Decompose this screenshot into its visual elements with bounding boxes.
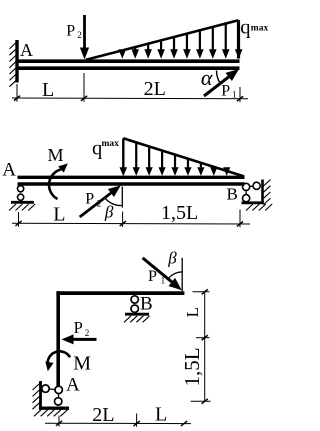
svg-text:P: P bbox=[85, 191, 94, 208]
svg-text:q: q bbox=[240, 17, 250, 39]
svg-text:2L: 2L bbox=[144, 78, 166, 100]
svg-text:L: L bbox=[183, 307, 202, 317]
svg-text:P: P bbox=[66, 23, 75, 40]
svg-text:P: P bbox=[74, 318, 83, 337]
svg-text:max: max bbox=[102, 139, 120, 149]
svg-text:β: β bbox=[167, 249, 177, 268]
svg-text:max: max bbox=[251, 24, 269, 34]
svg-text:1: 1 bbox=[232, 90, 237, 100]
svg-text:β: β bbox=[104, 203, 114, 222]
svg-text:α: α bbox=[201, 65, 213, 90]
svg-text:1: 1 bbox=[161, 276, 166, 286]
svg-text:A: A bbox=[66, 375, 80, 396]
svg-text:1,5L: 1,5L bbox=[161, 202, 198, 224]
svg-text:B: B bbox=[227, 185, 238, 204]
svg-text:M: M bbox=[73, 353, 91, 375]
svg-text:2: 2 bbox=[77, 30, 82, 40]
svg-text:P: P bbox=[221, 83, 230, 100]
svg-text:L: L bbox=[42, 79, 54, 101]
svg-text:M: M bbox=[48, 145, 64, 165]
svg-text:1,5L: 1,5L bbox=[180, 347, 204, 386]
svg-text:A: A bbox=[2, 160, 16, 181]
svg-text:L: L bbox=[155, 404, 167, 426]
svg-text:L: L bbox=[53, 204, 65, 226]
svg-text:P: P bbox=[148, 268, 157, 285]
svg-text:B: B bbox=[140, 293, 153, 314]
svg-text:2L: 2L bbox=[92, 404, 114, 426]
svg-text:2: 2 bbox=[97, 199, 102, 209]
svg-text:2: 2 bbox=[85, 328, 90, 338]
svg-text:A: A bbox=[20, 40, 33, 60]
